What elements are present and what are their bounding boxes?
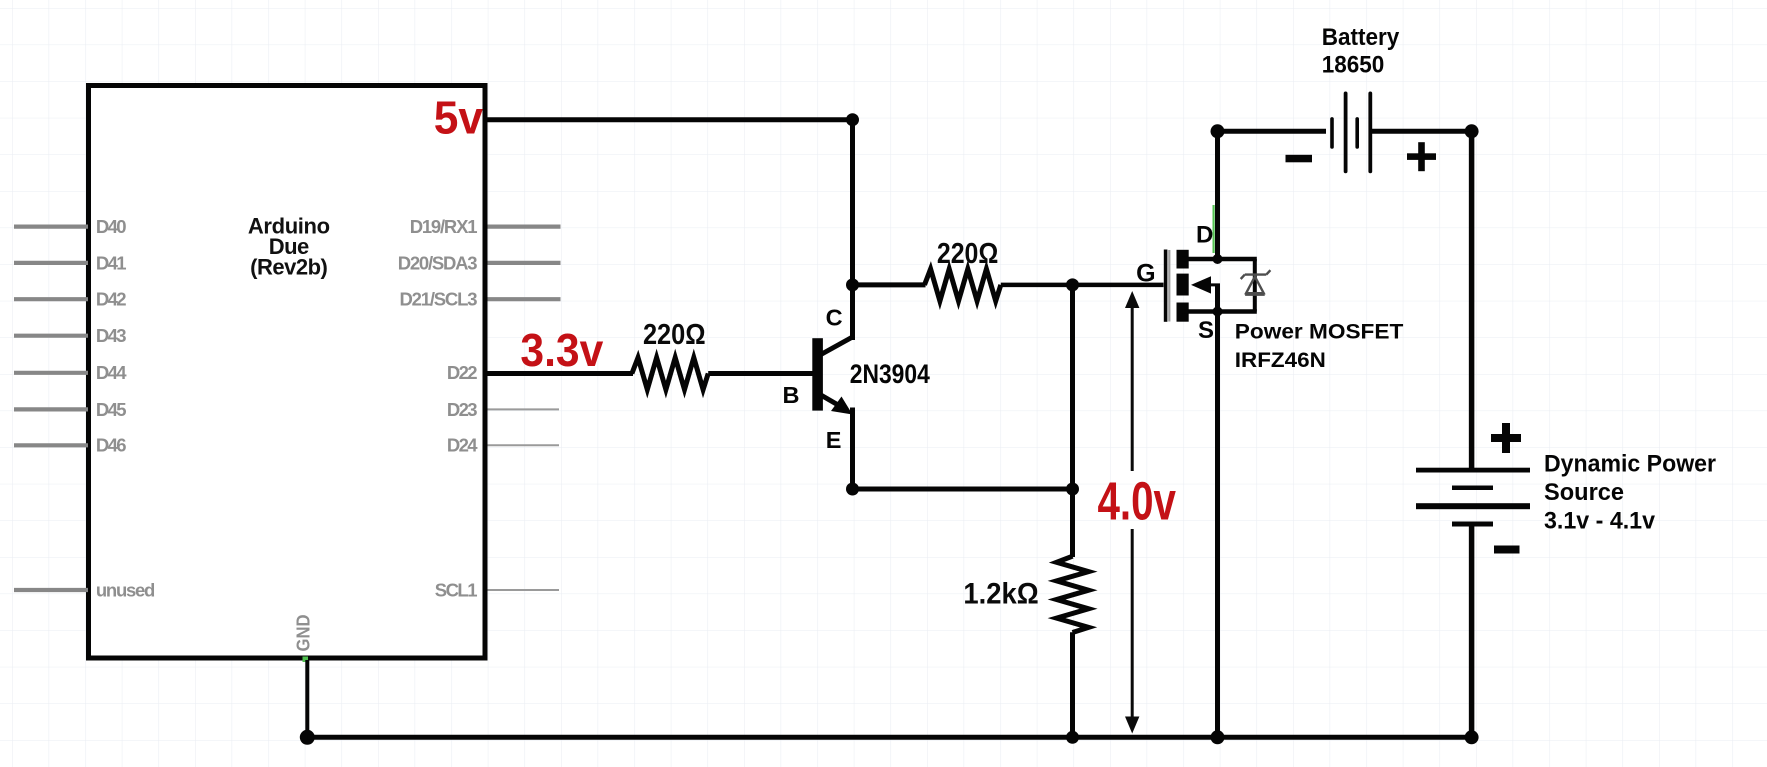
wire 5v horizontal	[488, 117, 853, 122]
svg-text:D43: D43	[96, 325, 127, 346]
svg-text:Dynamic Power: Dynamic Power	[1544, 451, 1716, 478]
svg-text:GND: GND	[293, 615, 314, 652]
svg-text:C: C	[826, 305, 843, 331]
pin stub D43	[14, 334, 88, 338]
svg-text:Power MOSFET: Power MOSFET	[1235, 320, 1404, 344]
node battery left	[1211, 124, 1225, 138]
source bottom line	[1182, 309, 1257, 314]
node drain	[1213, 254, 1223, 264]
svg-text:IRFZ46N: IRFZ46N	[1235, 348, 1326, 372]
wire source vertical	[1215, 285, 1220, 737]
svg-text:G: G	[1136, 260, 1155, 288]
svg-text:S: S	[1198, 317, 1214, 344]
wire emitter horizontal	[853, 487, 1073, 492]
node collector junction	[846, 278, 859, 291]
node battery right	[1465, 124, 1479, 138]
pin stub D45	[14, 407, 88, 411]
base bar	[812, 338, 823, 410]
svg-text:D22: D22	[447, 362, 478, 383]
svg-text:4.0v: 4.0v	[1098, 472, 1177, 531]
svg-text:Source: Source	[1544, 479, 1624, 506]
plate long	[1416, 503, 1530, 509]
resistor R2 220ohm	[925, 269, 1001, 301]
label battery minus	[1286, 155, 1313, 163]
svg-text:B: B	[783, 382, 800, 408]
svg-text:E: E	[826, 427, 842, 453]
node ground left	[300, 730, 315, 745]
right vertical	[1253, 259, 1257, 312]
collector diagonal	[820, 337, 853, 355]
gate bar	[1164, 250, 1168, 322]
pin stub D41	[14, 261, 88, 265]
wire right vertical top	[1469, 131, 1475, 470]
svg-text:2N3904: 2N3904	[850, 359, 930, 389]
svg-text:D: D	[1196, 222, 1213, 249]
pin stub D20/SDA3	[488, 261, 561, 265]
body arrow line	[1196, 283, 1220, 286]
svg-text:220Ω: 220Ω	[643, 319, 706, 351]
pin stub D40	[14, 225, 88, 229]
svg-text:Battery: Battery	[1322, 24, 1400, 51]
label Arduino Due (Rev2b)	[248, 214, 330, 280]
svg-text:D23: D23	[447, 399, 478, 420]
emitter arrowhead	[831, 397, 853, 415]
pin labels left	[96, 216, 155, 600]
label minus	[1494, 546, 1520, 554]
channel segment body	[1177, 274, 1189, 296]
pin stub unused	[14, 588, 88, 592]
svg-text:D42: D42	[96, 289, 127, 310]
wire GND vertical from box	[305, 660, 309, 737]
emitter diagonal	[820, 395, 845, 410]
svg-text:D45: D45	[96, 399, 127, 420]
channel segment drain	[1177, 250, 1189, 269]
svg-text:unused: unused	[96, 579, 155, 600]
green terminal mark	[1212, 205, 1214, 253]
wire collector to R2	[853, 282, 926, 287]
svg-text:18650: 18650	[1322, 52, 1385, 79]
svg-text:D21/SCL3: D21/SCL3	[400, 289, 478, 310]
svg-text:3.3v: 3.3v	[520, 324, 603, 376]
pin stub D42	[14, 297, 88, 301]
pin labels right	[398, 216, 479, 600]
pin stub D24	[488, 444, 560, 446]
node divider mid	[1066, 483, 1079, 496]
svg-text:D24: D24	[447, 435, 478, 456]
label battery plus	[1407, 153, 1436, 160]
svg-text:220Ω: 220Ω	[937, 238, 999, 270]
wire battery left	[1218, 129, 1327, 134]
node ground R3	[1066, 731, 1079, 744]
wire R1 to base	[708, 371, 812, 376]
Arduino Due box U1	[89, 86, 486, 659]
plate short	[1452, 486, 1493, 491]
node 5v corner	[846, 113, 859, 126]
MOSFET U2 IRFZ46N	[1164, 250, 1271, 322]
svg-text:D46: D46	[96, 435, 127, 456]
node source	[1213, 307, 1223, 317]
wire R3 to ground	[1070, 632, 1075, 737]
svg-text:D19/RX1: D19/RX1	[410, 216, 478, 237]
wire R2 to gate	[1001, 283, 1164, 288]
node emitter	[846, 483, 859, 496]
node ground source	[1211, 730, 1225, 744]
resistor R1 220ohm	[632, 358, 708, 390]
transistor Q1 2N3904	[812, 337, 852, 415]
pin stub D23	[488, 408, 560, 410]
wire divider vertical top	[1070, 285, 1075, 557]
battery plates	[1330, 119, 1334, 147]
svg-text:(Rev2b): (Rev2b)	[250, 255, 328, 280]
body diode zener	[1241, 270, 1271, 295]
resistor R3 1.2kohm	[1057, 556, 1089, 632]
svg-text:1.2kΩ: 1.2kΩ	[963, 577, 1038, 610]
node gate junction	[1066, 278, 1079, 291]
arrow 4.0v measurement	[1131, 306, 1134, 720]
svg-text:SCL1: SCL1	[435, 579, 478, 600]
wire emitter vertical	[850, 408, 855, 490]
svg-text:5v: 5v	[434, 92, 484, 144]
wire D22 to resistor R1	[488, 371, 634, 376]
wire collector vertical	[850, 120, 855, 340]
svg-text:D41: D41	[96, 252, 127, 273]
wire ground bus	[307, 735, 1471, 740]
plate long top	[1416, 468, 1530, 473]
pin stub D21/SCL3	[488, 297, 561, 301]
channel segment source	[1177, 303, 1189, 322]
pin stub D44	[14, 371, 88, 375]
svg-text:D20/SDA3: D20/SDA3	[398, 252, 478, 273]
svg-text:D40: D40	[96, 216, 127, 237]
node ground right	[1465, 730, 1479, 744]
pin stub D46	[14, 443, 88, 447]
green terminal mark GND	[303, 657, 309, 663]
svg-text:D44: D44	[96, 362, 127, 383]
drain top line	[1182, 257, 1257, 262]
wire right vertical bottom	[1469, 524, 1475, 737]
wire drain vertical	[1215, 131, 1220, 259]
pin stub D19/RX1	[488, 225, 561, 229]
pin stub SCL1	[488, 589, 560, 591]
label plus	[1491, 434, 1521, 442]
wire battery right	[1370, 129, 1471, 134]
svg-text:3.1v - 4.1v: 3.1v - 4.1v	[1544, 508, 1655, 535]
plate short bottom	[1452, 522, 1493, 527]
